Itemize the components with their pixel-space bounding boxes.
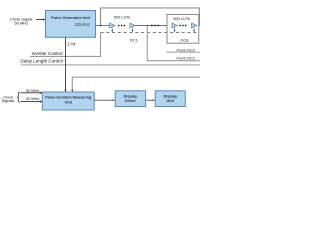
wire feedback loop top — [101, 8, 200, 26]
buffer B3 — [172, 23, 177, 28]
svg-text:From DC1: From DC1 — [177, 55, 196, 60]
wire inverter control riser — [30, 33, 101, 57]
node dots DC1 internal — [118, 25, 125, 27]
svg-text:Signals: Signals — [2, 98, 15, 103]
svg-text:Driver: Driver — [125, 99, 136, 103]
wire 32 MHz upper — [21, 88, 42, 94]
buffer B4 — [192, 23, 197, 28]
node junction A — [100, 25, 102, 27]
pulse duration measuring unit box — [42, 92, 94, 110]
wire from DC1 riser and line — [147, 26, 200, 61]
svg-text:DC1: DC1 — [130, 37, 139, 42]
svg-text:500 LUTs: 500 LUTs — [173, 16, 189, 21]
svg-text:32 MHz: 32 MHz — [26, 96, 40, 101]
svg-text:125 kHz: 125 kHz — [74, 22, 89, 27]
svg-text:500 LUTs: 500 LUTs — [114, 15, 130, 20]
wire control ticks with arrows — [112, 28, 194, 31]
svg-text:Inverter Control: Inverter Control — [31, 51, 62, 56]
wire from DC2 — [166, 51, 200, 53]
wire pulse generator output to chain — [96, 25, 110, 27]
svg-text:DC8: DC8 — [180, 38, 189, 43]
svg-text:Pulse Generator Unit: Pulse Generator Unit — [51, 15, 90, 20]
svg-text:Unit: Unit — [167, 99, 175, 103]
wire measuring unit to display driver — [94, 99, 115, 101]
buffer B1 — [110, 23, 115, 28]
svg-text:50 MHz: 50 MHz — [14, 20, 28, 25]
wire chain DC1 to DC8 — [135, 25, 167, 27]
wire display driver to display unit — [146, 99, 155, 101]
display driver box — [115, 91, 145, 107]
svg-text:Delay Length Control: Delay Length Control — [21, 58, 63, 63]
svg-text:1 Hz: 1 Hz — [67, 42, 76, 47]
node dots DC8 internal — [179, 25, 186, 27]
buffer B2 — [130, 23, 135, 28]
pulse generator unit U1 — [46, 11, 96, 38]
wire 1 Hz drop — [65, 37, 67, 90]
wire clock input arrow — [36, 18, 45, 20]
wire dashed control line — [101, 32, 198, 34]
wire return into measuring unit — [72, 77, 200, 90]
brace — [17, 92, 20, 102]
wire 32 MHz lower — [21, 96, 42, 103]
wire delay length control — [21, 64, 200, 66]
svg-text:32 MHz: 32 MHz — [26, 88, 40, 93]
clock signal 50 MHz input label — [10, 16, 32, 25]
node ellipsis dots between chains — [151, 25, 159, 27]
svg-text:Unit: Unit — [65, 101, 73, 105]
node junction B — [147, 25, 149, 27]
delay chain DC8 box — [167, 14, 199, 43]
svg-text:From DC2: From DC2 — [177, 48, 196, 53]
display unit box — [155, 91, 185, 107]
svg-text:Pulse-Duration-Measuring: Pulse-Duration-Measuring — [45, 96, 91, 100]
